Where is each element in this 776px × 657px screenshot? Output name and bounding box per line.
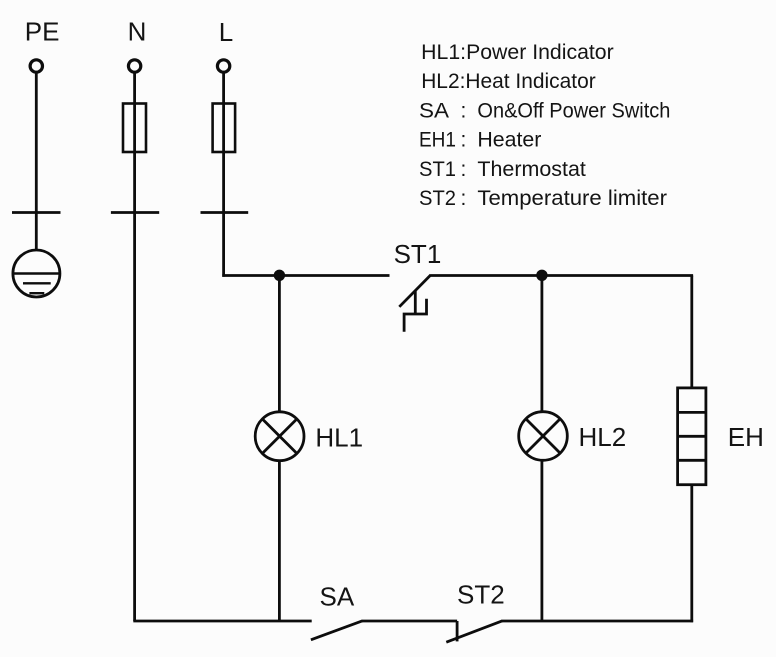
svg-text:N: N: [128, 17, 147, 47]
svg-text:L: L: [219, 17, 233, 47]
svg-text:SA: SA: [419, 99, 449, 122]
svg-text:ST2: ST2: [457, 580, 505, 610]
svg-text:Heater: Heater: [477, 129, 541, 152]
svg-text:HL1:Power Indicator: HL1:Power Indicator: [421, 41, 614, 64]
svg-text:EH: EH: [728, 422, 764, 452]
svg-text:HL2:Heat Indicator: HL2:Heat Indicator: [421, 70, 596, 93]
svg-text::: :: [461, 158, 467, 181]
svg-text:PE: PE: [25, 17, 60, 47]
svg-text:HL2: HL2: [579, 422, 627, 452]
svg-text:Temperature limiter: Temperature limiter: [477, 187, 667, 210]
svg-text:ST1: ST1: [394, 239, 442, 269]
svg-text:HL1: HL1: [315, 423, 363, 453]
svg-text::: :: [461, 99, 467, 122]
svg-text:Thermostat: Thermostat: [477, 158, 586, 181]
svg-text::: :: [461, 129, 467, 152]
svg-text:EH1: EH1: [419, 129, 456, 152]
svg-text::: :: [461, 187, 467, 210]
svg-text:SA: SA: [320, 582, 355, 612]
svg-text:ST2: ST2: [419, 187, 456, 210]
svg-text:ST1: ST1: [419, 158, 456, 181]
svg-text:On&Off Power Switch: On&Off Power Switch: [477, 99, 670, 122]
